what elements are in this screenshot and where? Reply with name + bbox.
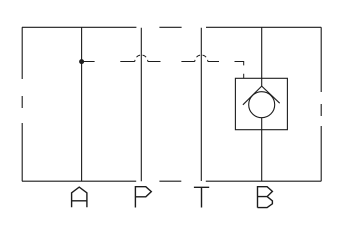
enclosure top edge (long-dashed) bbox=[22, 26, 321, 28]
pilot line hop over T bbox=[195, 55, 208, 61]
check valve body (square) bbox=[235, 78, 287, 129]
pilot line corner and drop to valve bbox=[235, 62, 244, 79]
port label T bbox=[194, 187, 209, 207]
enclosure bottom edge (long-dashed) bbox=[22, 180, 321, 182]
check valve ball bbox=[249, 92, 275, 118]
junction node on port line A bbox=[80, 60, 83, 63]
port line P bbox=[140, 28, 142, 182]
port label A bbox=[72, 187, 87, 207]
port line B (through check valve) bbox=[261, 27, 263, 181]
port line T bbox=[200, 28, 202, 181]
port label B bbox=[258, 187, 273, 208]
check valve seat bbox=[243, 86, 280, 105]
port line A bbox=[81, 27, 83, 181]
pilot line hop over P bbox=[135, 55, 148, 61]
enclosure right edge (long-dashed) bbox=[320, 27, 322, 181]
enclosure left edge (long-dashed) bbox=[21, 27, 23, 181]
pilot line (dashed horizontal run) bbox=[82, 61, 219, 63]
port label P bbox=[135, 187, 151, 208]
